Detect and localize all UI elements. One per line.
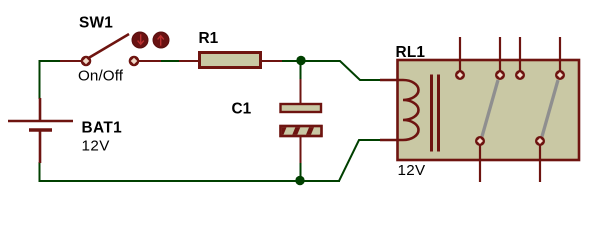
svg-text:C1: C1 xyxy=(232,101,252,118)
wire node B to relay bottom xyxy=(301,140,381,181)
svg-text:12V: 12V xyxy=(398,162,426,179)
switch SW1 actuator down button xyxy=(132,32,148,48)
wire resistor to node A xyxy=(281,60,306,62)
relay RL1 pin 3 top xyxy=(515,37,525,80)
node B junction dot xyxy=(295,176,304,185)
wire capacitor to node B xyxy=(300,162,302,181)
wire left vertical lower xyxy=(39,162,41,181)
capacitor C1 xyxy=(279,79,326,163)
svg-text:12V: 12V xyxy=(82,138,111,155)
relay RL1 contact arm 2 xyxy=(542,80,558,137)
svg-text:R1: R1 xyxy=(199,30,219,47)
wire bottom horizontal xyxy=(39,180,341,182)
svg-text:SW1: SW1 xyxy=(79,15,113,32)
relay RL1 body xyxy=(398,60,580,160)
wire node A to relay top xyxy=(301,61,381,80)
battery BAT1 xyxy=(8,98,73,163)
relay RL1 pin 1 top xyxy=(455,37,465,80)
relay RL1 pin 4 top xyxy=(555,37,565,80)
svg-text:BAT1: BAT1 xyxy=(82,120,123,137)
wire switch to resistor xyxy=(161,60,180,62)
relay RL1 coil pin bottom xyxy=(380,139,403,141)
switch SW1 actuator up button xyxy=(153,32,169,48)
wire left vertical upper xyxy=(39,60,41,99)
node A junction dot xyxy=(296,56,305,65)
svg-text:RL1: RL1 xyxy=(396,44,426,61)
wire top-left horizontal xyxy=(39,60,62,62)
wire node A down to capacitor xyxy=(300,60,302,80)
relay RL1 pin 2 top xyxy=(495,37,505,80)
svg-text:On/Off: On/Off xyxy=(78,68,124,85)
switch SW1 xyxy=(60,34,161,66)
relay RL1 pin 6 bottom common 2 xyxy=(535,136,545,182)
relay RL1 core bars xyxy=(430,75,440,152)
resistor R1 xyxy=(179,53,282,68)
relay RL1 pin 5 bottom common 1 xyxy=(475,136,485,182)
relay RL1 contact arm 1 xyxy=(482,80,498,137)
relay RL1 coil xyxy=(403,80,419,140)
relay RL1 coil pin top xyxy=(380,79,403,81)
